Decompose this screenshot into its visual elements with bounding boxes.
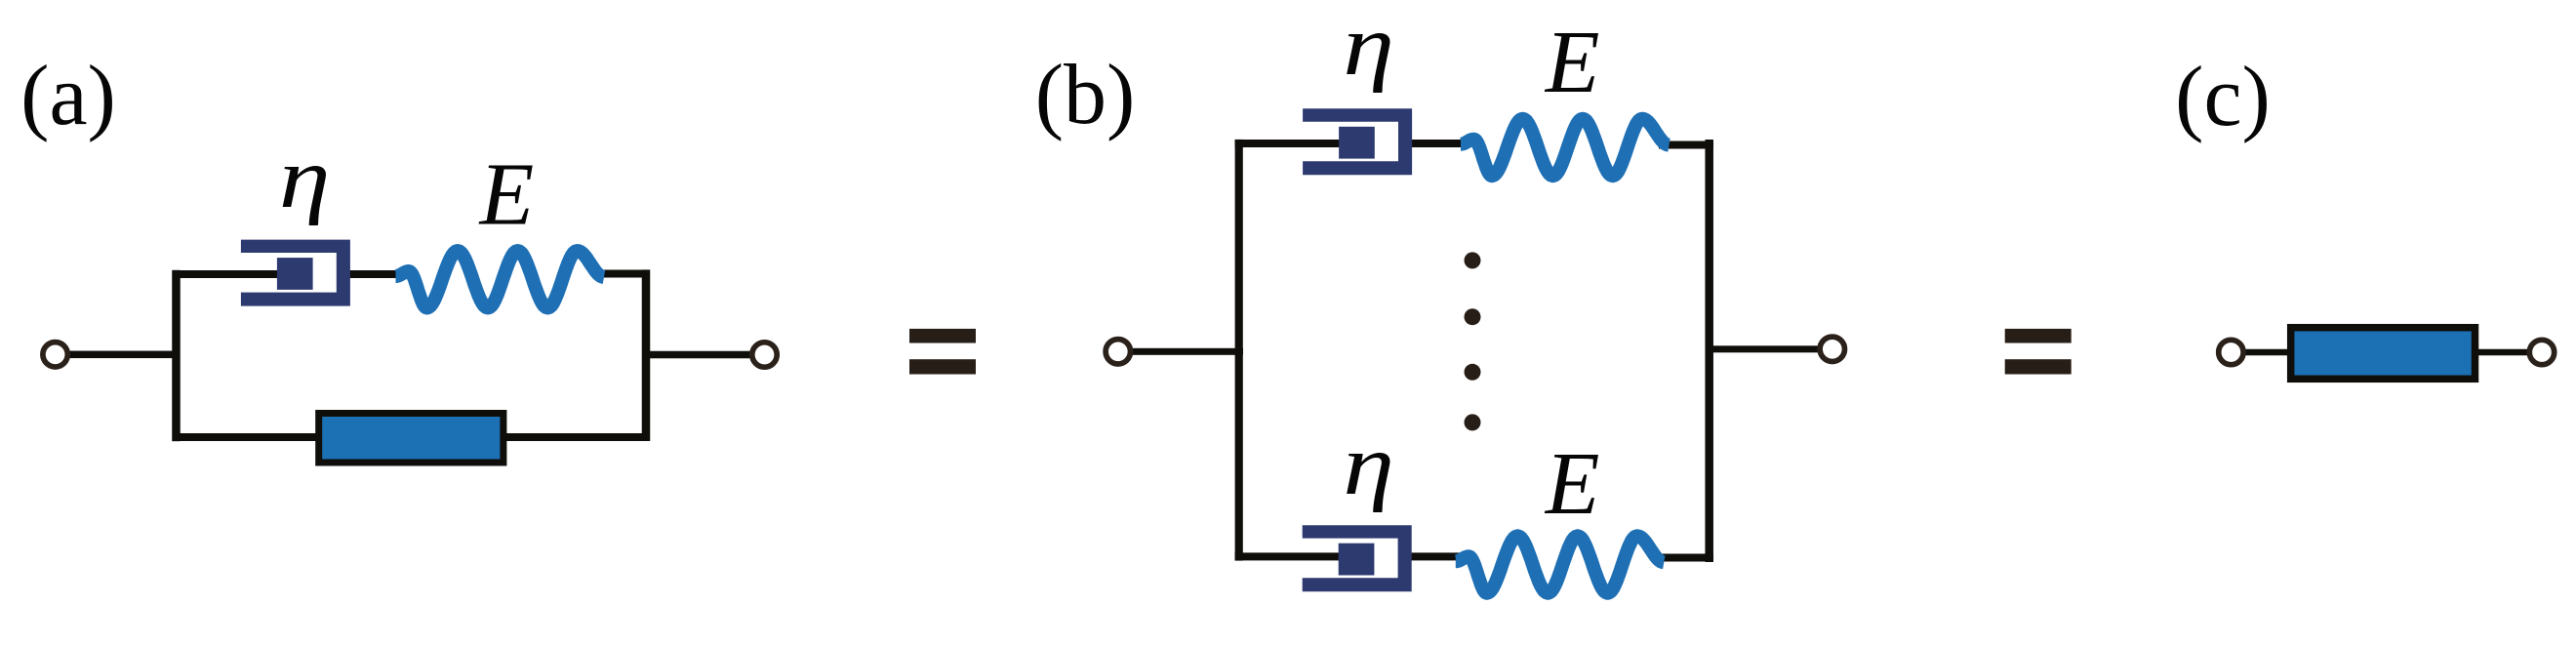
svg-text:(b): (b) xyxy=(1035,48,1136,142)
svg-text:E: E xyxy=(478,145,535,244)
svg-text:(a): (a) xyxy=(20,49,116,143)
svg-text:η: η xyxy=(1343,418,1394,513)
svg-text:η: η xyxy=(1343,0,1394,94)
svg-text:η: η xyxy=(279,131,331,226)
svg-text:(c): (c) xyxy=(2175,50,2271,144)
svg-text:E: E xyxy=(1544,13,1600,111)
svg-text:E: E xyxy=(1544,434,1600,533)
